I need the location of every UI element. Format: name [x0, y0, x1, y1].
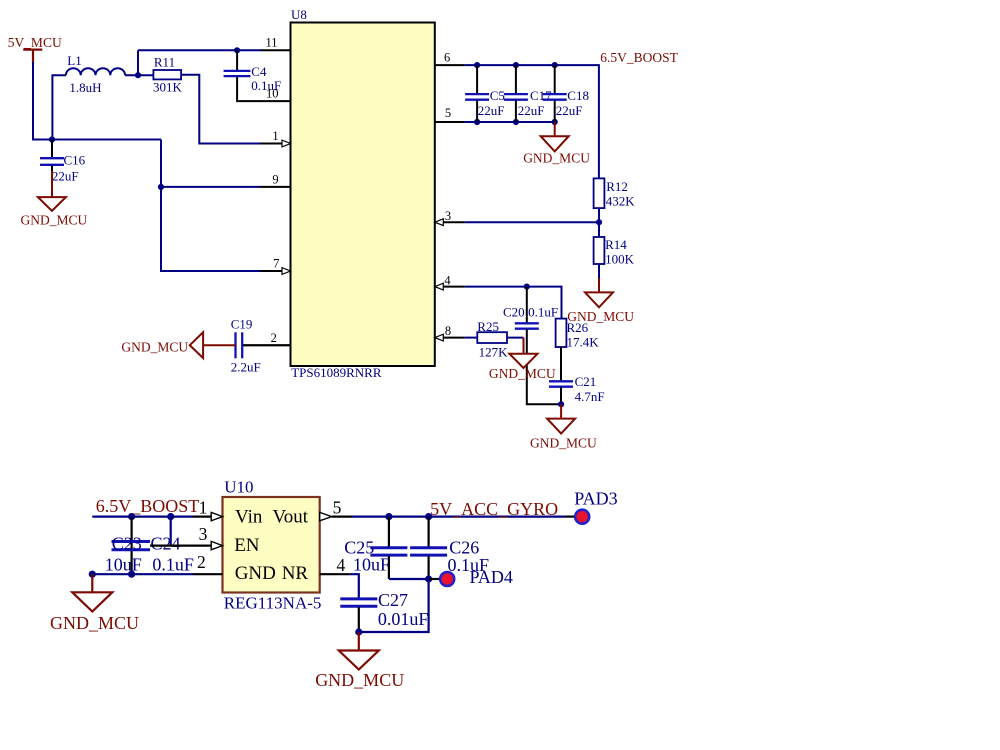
- svg-text:0.1uF: 0.1uF: [528, 305, 558, 320]
- junction C16 node: [49, 136, 55, 142]
- junction C23 top: [128, 513, 135, 520]
- wire pin 8: [465, 337, 478, 339]
- svg-text:6.5V_BOOST: 6.5V_BOOST: [600, 50, 678, 65]
- pin 4: [435, 283, 465, 290]
- IC U8: [291, 23, 435, 367]
- capacitor C25: [370, 517, 407, 579]
- junction C27 bottom: [355, 628, 362, 635]
- IC U10: [223, 497, 320, 593]
- svg-text:22uF: 22uF: [478, 103, 505, 118]
- svg-text:R25: R25: [477, 319, 499, 334]
- svg-text:10uF: 10uF: [353, 555, 390, 575]
- svg-text:301K: 301K: [153, 80, 183, 95]
- capacitor C24: [170, 517, 172, 546]
- ground GND_MCU (C16): [38, 171, 66, 211]
- capacitor C26: [410, 517, 447, 579]
- ground GND_MCU (U10 left): [72, 574, 112, 611]
- svg-text:8: 8: [445, 324, 451, 338]
- wire PAD4 node down: [359, 579, 429, 632]
- svg-text:127K: 127K: [479, 345, 509, 360]
- svg-text:4: 4: [337, 555, 346, 575]
- wire pin 4: [465, 287, 562, 319]
- pin 8: [435, 334, 465, 341]
- junction FB node: [596, 219, 602, 225]
- junction C26 top: [425, 513, 432, 520]
- capacitor C18: [543, 65, 567, 122]
- wire R12 to FB node: [598, 208, 600, 222]
- svg-text:C21: C21: [575, 374, 597, 389]
- junction SW node: [135, 72, 141, 78]
- capacitor C16: [40, 140, 64, 174]
- junction GND left: [89, 571, 96, 578]
- svg-text:2: 2: [271, 331, 277, 345]
- svg-text:U8: U8: [291, 7, 307, 22]
- wire SW up to pin 11: [137, 50, 139, 75]
- wire Vin net: [92, 515, 193, 517]
- svg-text:7: 7: [273, 257, 279, 271]
- ground GND_MCU (C18): [541, 122, 569, 151]
- svg-text:C24: C24: [151, 533, 181, 553]
- svg-text:C19: C19: [231, 317, 253, 332]
- resistor R25: [477, 332, 507, 343]
- svg-text:100K: 100K: [605, 252, 635, 267]
- svg-text:PAD4: PAD4: [470, 567, 513, 587]
- svg-text:R14: R14: [605, 237, 627, 252]
- junction PAD4 node: [425, 575, 432, 582]
- svg-text:6.5V_BOOST: 6.5V_BOOST: [96, 496, 200, 516]
- pin 9: [261, 186, 291, 188]
- svg-text:10: 10: [266, 87, 279, 101]
- wire pin 5: [465, 121, 555, 123]
- svg-text:2.2uF: 2.2uF: [231, 359, 261, 374]
- svg-text:C20: C20: [503, 305, 525, 320]
- wire 5V horizontal: [32, 139, 161, 141]
- svg-text:R12: R12: [606, 179, 628, 194]
- junction C21 bottom: [558, 401, 564, 407]
- svg-text:0.01uF: 0.01uF: [378, 609, 429, 629]
- svg-text:C16: C16: [64, 153, 86, 168]
- svg-text:R11: R11: [154, 54, 175, 69]
- svg-text:C23: C23: [112, 533, 142, 553]
- wire NR to C27: [350, 574, 359, 598]
- pad PAD4: [429, 572, 455, 586]
- svg-text:Vout: Vout: [273, 507, 309, 528]
- svg-text:GND_MCU: GND_MCU: [121, 339, 188, 354]
- svg-text:3: 3: [199, 524, 208, 544]
- pin 5 Vout: [320, 512, 352, 520]
- svg-text:GND_MCU: GND_MCU: [50, 613, 139, 633]
- pin 7: [261, 268, 291, 275]
- svg-text:5: 5: [445, 106, 451, 120]
- svg-text:EN: EN: [234, 535, 260, 556]
- junction C18 bottom: [552, 119, 558, 125]
- capacitor C23: [112, 517, 151, 575]
- svg-text:17.4K: 17.4K: [567, 335, 600, 350]
- junction C25 top: [385, 513, 392, 520]
- svg-text:GND_MCU: GND_MCU: [315, 670, 404, 690]
- wire R25 right: [507, 337, 524, 339]
- junction C5 bottom: [474, 119, 480, 125]
- svg-text:3: 3: [445, 209, 451, 223]
- svg-text:432K: 432K: [606, 193, 636, 208]
- svg-text:5V_MCU: 5V_MCU: [8, 35, 62, 50]
- svg-text:0.1uF: 0.1uF: [152, 555, 194, 575]
- svg-text:GND_MCU: GND_MCU: [530, 436, 597, 451]
- ground GND_MCU (R25): [510, 338, 538, 368]
- resistor R26: [556, 319, 567, 347]
- wire 5V vertical: [32, 62, 34, 140]
- svg-text:U10: U10: [224, 477, 253, 496]
- ground GND_MCU (C21): [547, 404, 575, 433]
- junction C17 top: [513, 62, 519, 68]
- svg-text:C4: C4: [251, 64, 267, 79]
- capacitor C17: [504, 65, 528, 122]
- svg-text:10uF: 10uF: [105, 555, 142, 575]
- svg-text:C5: C5: [490, 88, 505, 103]
- svg-text:TPS61089RNRR: TPS61089RNRR: [291, 365, 382, 380]
- ground GND_MCU (pin 2) arrow style: [190, 332, 236, 358]
- svg-text:R26: R26: [567, 320, 589, 335]
- junction C17 bottom: [513, 119, 519, 125]
- svg-text:1: 1: [199, 497, 208, 517]
- pin 2: [242, 344, 290, 346]
- capacitor C27: [340, 599, 377, 632]
- pin 3: [435, 219, 465, 226]
- ground GND_MCU (C27): [339, 632, 379, 670]
- svg-text:11: 11: [266, 36, 278, 50]
- ground GND_MCU (R14): [585, 278, 613, 307]
- svg-text:4: 4: [444, 273, 451, 287]
- pin 11: [261, 49, 291, 51]
- svg-text:GND_MCU: GND_MCU: [489, 366, 556, 381]
- svg-text:GND: GND: [235, 563, 276, 584]
- wire R11 right to pin 1: [181, 75, 260, 144]
- capacitor C19: [236, 332, 291, 358]
- capacitor C20: [515, 287, 561, 405]
- wire Vout net 5V_ACC_GYRO: [352, 515, 566, 517]
- svg-text:5: 5: [333, 497, 342, 517]
- pin 2 GND: [193, 573, 223, 575]
- resistor R14: [594, 222, 605, 279]
- svg-text:PAD3: PAD3: [574, 488, 617, 508]
- svg-text:22uF: 22uF: [556, 103, 583, 118]
- junction C4 top: [234, 47, 240, 53]
- svg-text:REG113NA-5: REG113NA-5: [224, 594, 322, 613]
- junction C23 bottom: [128, 571, 135, 578]
- pin 3 EN: [150, 541, 223, 549]
- svg-text:GND_MCU: GND_MCU: [523, 151, 590, 166]
- wire pins 9 and 7 branch: [161, 140, 261, 272]
- junction C18 top: [552, 62, 558, 68]
- capacitor C4: [224, 50, 261, 101]
- pin 4 NR: [320, 573, 350, 575]
- svg-text:C18: C18: [567, 88, 589, 103]
- wire C25 bottom to C26 bottom: [389, 578, 429, 580]
- pin 1 Vin: [193, 512, 223, 520]
- power symbol 5V_MCU: [23, 50, 42, 63]
- pin 6: [435, 64, 465, 66]
- pin 5: [435, 121, 465, 123]
- svg-text:1.8uH: 1.8uH: [69, 80, 101, 95]
- resistor R12: [594, 178, 605, 208]
- junction pin 9 branch: [158, 184, 164, 190]
- junction C24 top: [167, 513, 174, 520]
- pin 1: [261, 140, 291, 147]
- wire pin 11 net: [138, 49, 261, 51]
- svg-text:NR: NR: [282, 563, 309, 584]
- svg-text:22uF: 22uF: [52, 169, 79, 184]
- resistor R11: [153, 70, 181, 79]
- svg-text:6: 6: [444, 51, 450, 65]
- junction C5 top: [474, 62, 480, 68]
- svg-text:Vin: Vin: [235, 507, 263, 528]
- pin 10: [261, 100, 291, 102]
- svg-text:1: 1: [272, 129, 278, 143]
- capacitor C21: [549, 347, 573, 404]
- svg-text:9: 9: [272, 173, 278, 187]
- junction C20 top: [524, 284, 530, 290]
- svg-text:22uF: 22uF: [518, 103, 545, 118]
- svg-text:C27: C27: [378, 590, 408, 610]
- pad PAD3: [566, 510, 589, 524]
- capacitor C5: [465, 65, 489, 122]
- svg-text:5V_ACC_GYRO: 5V_ACC_GYRO: [430, 499, 558, 519]
- wire GND net: [92, 573, 193, 575]
- wire pin 6 net 6.5V_BOOST: [465, 65, 599, 178]
- svg-text:2: 2: [197, 552, 206, 572]
- svg-text:L1: L1: [67, 53, 81, 68]
- wire L1 to R11: [125, 74, 153, 76]
- wire pin 3: [465, 221, 599, 223]
- wire L1 left leg: [52, 75, 66, 139]
- inductor L1: [66, 68, 125, 75]
- svg-text:GND_MCU: GND_MCU: [21, 213, 88, 228]
- svg-text:4.7nF: 4.7nF: [575, 389, 605, 404]
